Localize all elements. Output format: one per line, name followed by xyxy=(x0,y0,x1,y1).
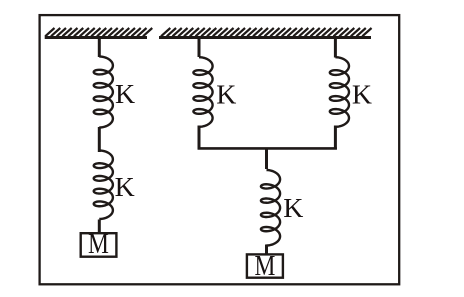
wire from spring K4 to bar xyxy=(334,126,337,150)
mass M1 (box) xyxy=(81,233,117,257)
svg-text:M: M xyxy=(88,227,109,260)
ceiling support (left, hatched) xyxy=(45,28,153,38)
wire from bar to spring K5 xyxy=(265,148,268,169)
svg-text:K: K xyxy=(283,193,303,224)
svg-text:K: K xyxy=(115,172,135,203)
spring K4 (right parallel spring) xyxy=(330,57,349,127)
svg-text:K: K xyxy=(352,80,372,111)
wire from spring K3 to bar xyxy=(198,126,201,150)
spring K2 (lower spring, left system) xyxy=(94,151,113,220)
spring K1 (upper spring, left system) xyxy=(94,57,113,128)
svg-text:M: M xyxy=(255,249,276,282)
wire between spring K1 and spring K2 xyxy=(98,127,101,152)
horizontal connecting bar joining springs K3 and K4 xyxy=(198,147,337,150)
wire from spring K5 to mass M2 xyxy=(265,245,268,255)
spring K5 (middle spring to mass M2) xyxy=(261,170,280,246)
wire from right ceiling to spring K4 xyxy=(334,37,337,58)
wire from right ceiling to spring K3 xyxy=(198,37,201,57)
spring K3 (left parallel spring) xyxy=(193,57,212,127)
wire from spring K2 to mass M1 xyxy=(98,220,101,233)
mass M2 (box) xyxy=(247,254,283,277)
wire from left ceiling to spring K1 xyxy=(98,37,101,57)
svg-text:K: K xyxy=(115,79,135,110)
svg-text:K: K xyxy=(216,79,236,110)
ceiling support (right, hatched) xyxy=(159,28,372,38)
